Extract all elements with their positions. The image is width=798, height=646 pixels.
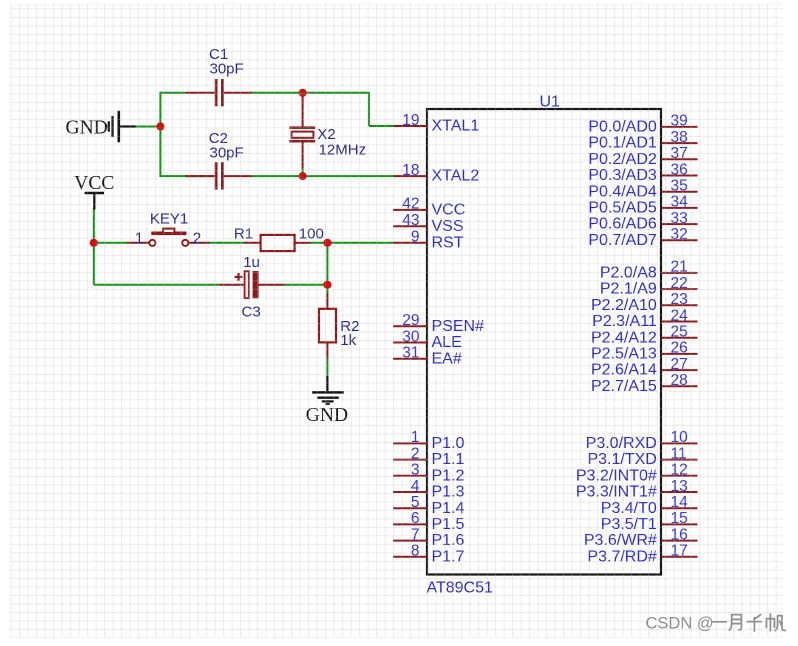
junction top rail / X2 xyxy=(299,89,307,97)
pin 14 P3.4/T0 (U1 right) xyxy=(601,494,698,517)
wire: lower row from VCC vertical to C3 xyxy=(94,284,220,286)
pin 36 P0.3/AD3 (U1 right) xyxy=(588,161,697,184)
pin 18 XTAL2 (U1 left) xyxy=(393,162,479,185)
pin 29 PSEN# (U1 left) xyxy=(393,312,484,335)
junction GND / left rail xyxy=(156,122,164,130)
wire: left vertical rail joining C1 and C2 rails xyxy=(159,92,161,177)
junction R1 / RST xyxy=(323,239,331,247)
pin 34 P0.5/AD5 (U1 right) xyxy=(588,194,697,217)
pin 31 EA# (U1 left) xyxy=(393,345,462,368)
pin 10 P3.0/RXD (U1 right) xyxy=(586,429,698,452)
pin 11 P3.1/TXD (U1 right) xyxy=(587,445,697,468)
junction bottom rail / X2 xyxy=(299,172,307,180)
ground symbol GND (left, rotated) xyxy=(106,111,135,142)
wire: junction down to R2 top xyxy=(326,285,328,294)
power symbol VCC xyxy=(85,193,104,210)
pin 32 P0.7/AD7 (U1 right) xyxy=(588,226,697,249)
junction VCC / reset row xyxy=(90,239,98,247)
ground symbol GND (below R2) xyxy=(312,376,344,404)
wire: vertical between RST row junction and C3 row junction xyxy=(326,243,328,285)
pin 19 XTAL1 (U1 left) xyxy=(393,112,479,135)
wire: R2 bottom to ground xyxy=(326,359,328,377)
pin 25 P2.4/A12 (U1 right) xyxy=(591,324,698,347)
watermark CSDN @一月千帆 xyxy=(646,614,786,633)
pin 28 P2.7/A15 (U1 right) xyxy=(591,372,698,395)
pin 2 P1.1 (U1 left) xyxy=(393,445,465,468)
pin 16 P3.6/WR# (U1 right) xyxy=(584,526,698,549)
pin 9 RST (U1 left) xyxy=(393,229,464,252)
op IC U1 AT89C51 body xyxy=(427,109,661,575)
pin 26 P2.5/A13 (U1 right) xyxy=(591,340,698,363)
pin 33 P0.6/AD6 (U1 right) xyxy=(588,210,697,233)
wire: bottom rail from left vertical to XTAL2 pin xyxy=(160,175,395,177)
pin 24 P2.3/A11 (U1 right) xyxy=(592,307,697,330)
pushbutton KEY1 xyxy=(127,229,210,246)
pin 35 P0.4/AD4 (U1 right) xyxy=(588,178,697,201)
wire: C3 to junction above R2 xyxy=(284,284,327,286)
pin 37 P0.2/AD2 (U1 right) xyxy=(588,145,697,168)
pin 39 P0.0/AD0 (U1 right) xyxy=(588,113,697,136)
pin 13 P3.3/INT1# (U1 right) xyxy=(576,478,698,501)
pin 22 P2.1/A9 (U1 right) xyxy=(600,275,698,298)
pin 42 VCC (U1 left) xyxy=(393,196,465,219)
wire: VCC vertical down to key row and to lower row corner xyxy=(93,209,95,285)
pin 6 P1.5 (U1 left) xyxy=(393,510,465,533)
pin 5 P1.4 (U1 left) xyxy=(393,494,465,517)
pin 12 P3.2/INT0# (U1 right) xyxy=(576,462,698,485)
pin 43 VSS (U1 left) xyxy=(393,212,464,235)
pin 17 P3.7/RD# (U1 right) xyxy=(587,543,697,566)
resistor R1 xyxy=(244,235,311,251)
wire: reset row VCC junction to KEY1 xyxy=(94,242,127,244)
wire: GND stub to left rail xyxy=(135,126,160,128)
pin 23 P2.2/A10 (U1 right) xyxy=(591,291,698,314)
wire: KEY1 to R1 xyxy=(210,242,245,244)
wire: top rail from left vertical to corner above XTAL1 xyxy=(160,92,395,126)
capacitor C3 (polarized) xyxy=(219,271,284,298)
pin 4 P1.3 (U1 left) xyxy=(393,478,465,501)
pin 21 P2.0/A8 (U1 right) xyxy=(600,259,698,282)
capacitor C2 xyxy=(185,162,252,189)
crystal X2 xyxy=(289,94,315,177)
wire: R1 to RST pin with junction xyxy=(310,242,394,244)
pin 1 P1.0 (U1 left) xyxy=(393,429,465,452)
pin 7 P1.6 (U1 left) xyxy=(393,526,465,549)
junction C3 / R2 xyxy=(323,281,331,289)
pin 38 P0.1/AD1 (U1 right) xyxy=(588,129,697,152)
pin 30 ALE (U1 left) xyxy=(393,328,462,351)
pin 15 P3.5/T1 (U1 right) xyxy=(601,510,698,533)
resistor R2 xyxy=(319,293,336,359)
capacitor C1 xyxy=(185,79,252,106)
pin 8 P1.7 (U1 left) xyxy=(393,543,465,566)
pin 27 P2.6/A14 (U1 right) xyxy=(591,356,698,379)
pin 3 P1.2 (U1 left) xyxy=(393,462,465,485)
